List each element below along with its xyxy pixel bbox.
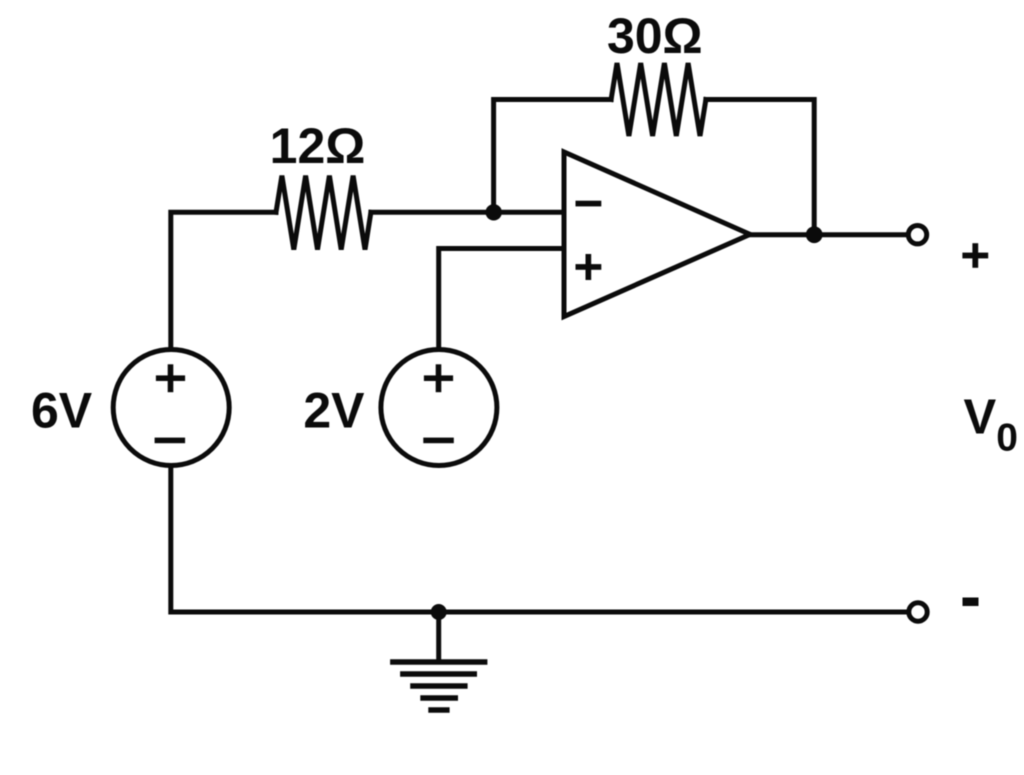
ground — [390, 662, 487, 710]
svg-text:12Ω: 12Ω — [270, 118, 366, 174]
terminal: output + open circle — [908, 226, 926, 244]
label + output polarity — [962, 243, 988, 268]
terminal: output - open circle — [909, 603, 927, 621]
svg-text:6V: 6V — [31, 382, 93, 438]
svg-text:30Ω: 30Ω — [607, 8, 703, 64]
wire: op-amp output to + terminal — [749, 232, 907, 237]
resistor 12Ω — [276, 176, 371, 250]
wire: bottom rail from 6V source to - terminal — [171, 465, 907, 612]
svg-text:2V: 2V — [303, 382, 365, 438]
wire: 2V source top up and across to op-amp non-inverting input — [439, 249, 566, 351]
wire: 6V source top up and across to 12Ω left lead — [171, 212, 276, 350]
label - output polarity — [963, 598, 979, 607]
node: ground junction dot — [431, 604, 447, 620]
wire: 30Ω right lead across and down to output node — [706, 100, 814, 233]
voltage source V2 2V — [381, 350, 497, 466]
resistor 30Ω — [611, 63, 706, 136]
svg-text:V0: V0 — [964, 391, 1018, 460]
wire: ground stub — [436, 612, 441, 661]
wire: 12Ω right lead to op-amp inverting input — [371, 210, 566, 215]
wire: inverting node up and across to 30Ω left lead — [494, 100, 611, 213]
op-amp U1 — [564, 152, 750, 317]
node: inverting input junction dot — [486, 204, 502, 220]
voltage source V1 6V — [113, 350, 229, 466]
node: output junction dot — [806, 226, 823, 243]
